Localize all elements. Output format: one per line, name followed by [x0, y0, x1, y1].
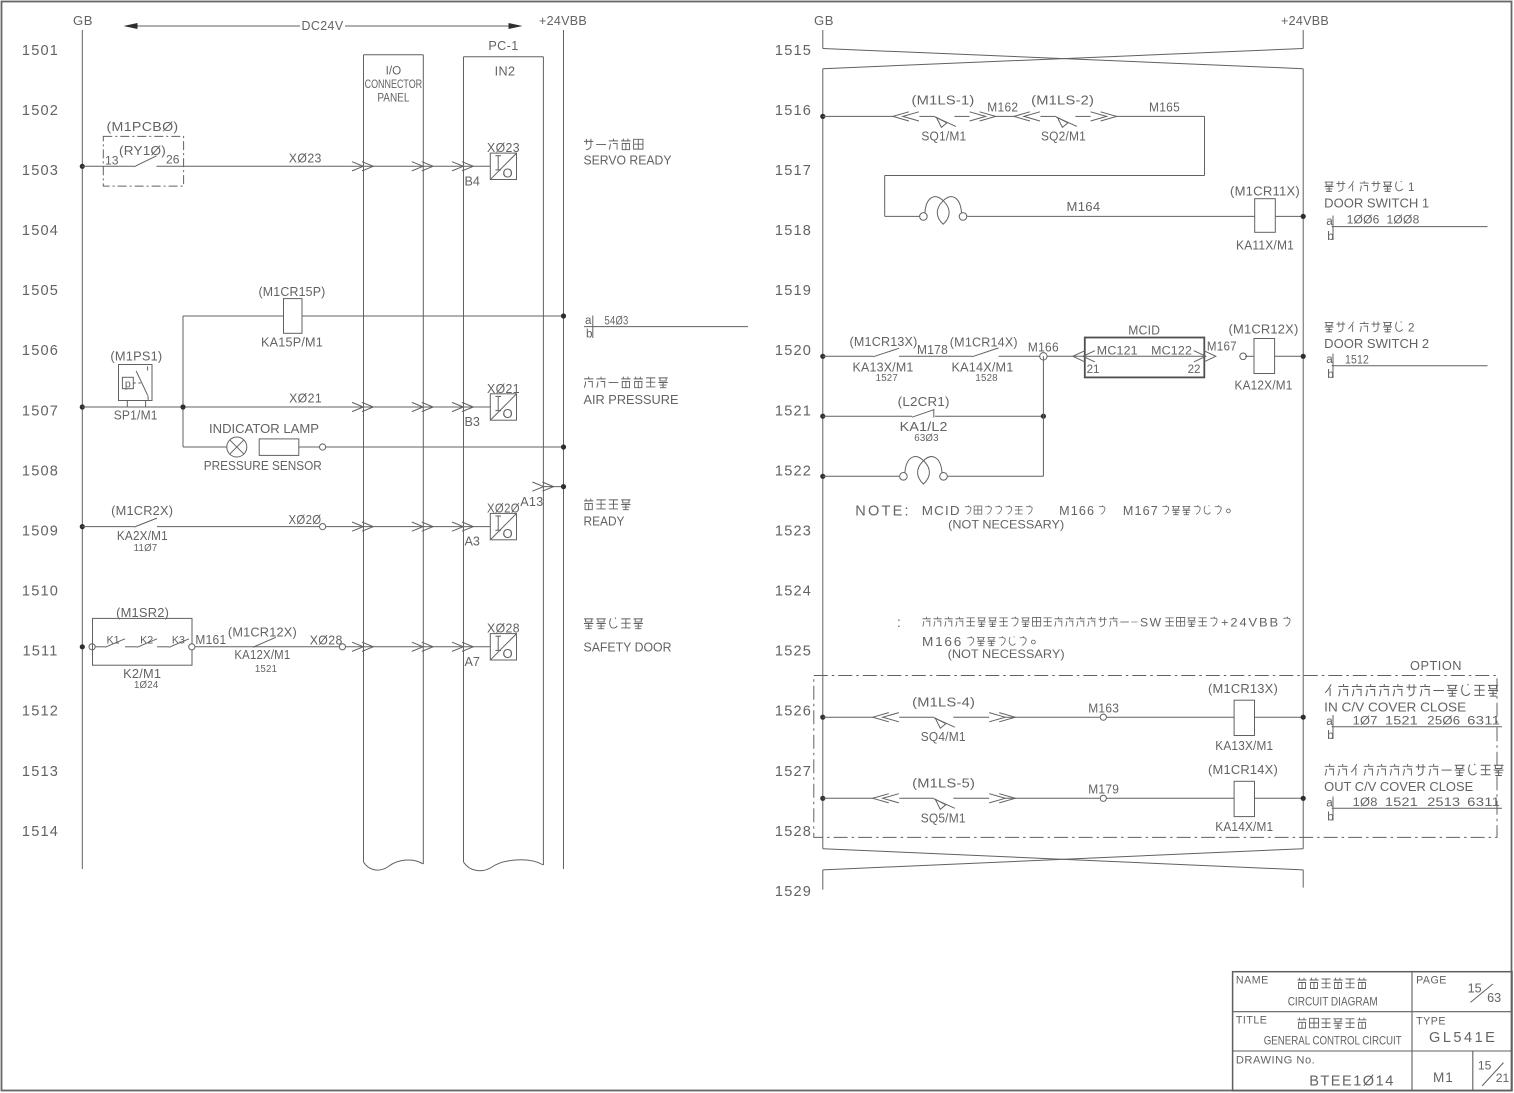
- node +24VBB junction lamp rung: [561, 444, 566, 449]
- svg-text:SQ2/M1: SQ2/M1: [1041, 130, 1086, 144]
- svg-text:1529: 1529: [775, 884, 812, 900]
- svg-text:SW: SW: [1140, 616, 1163, 630]
- svg-text:1516: 1516: [775, 103, 812, 119]
- safety relay unit M1SR2 box: [93, 606, 193, 691]
- svg-text:(NOT NECESSARY): (NOT NECESSARY): [948, 647, 1065, 661]
- annotation door switch 1 (JP): [1325, 182, 1334, 191]
- I/O module X&#216;23: [490, 153, 516, 179]
- node GB junction rung 1526: [820, 715, 825, 720]
- wire rung 1526 mid segment: [1005, 716, 1099, 718]
- svg-text:M178: M178: [917, 343, 948, 357]
- svg-text:SAFETY DOOR: SAFETY DOOR: [584, 641, 672, 655]
- node junction M166 drop 1521: [1041, 414, 1046, 419]
- limit switch SQ4 (M1LS-4): [873, 696, 1015, 745]
- svg-text:1521: 1521: [775, 403, 812, 419]
- wire M164 left segment: [885, 215, 920, 217]
- note conveyor text line: [897, 615, 1290, 630]
- svg-text:15: 15: [1468, 982, 1482, 996]
- svg-text:O: O: [503, 646, 513, 661]
- node +24VBB junction 1526: [1301, 715, 1306, 720]
- left GB bus rail: [81, 30, 83, 869]
- wire rung 1511 mid segment: [195, 646, 340, 648]
- svg-text:GENERAL CONTROL CIRCUIT: GENERAL CONTROL CIRCUIT: [1264, 1033, 1402, 1047]
- relay coil KA12X (M1CR12X): [1229, 322, 1299, 392]
- svg-text:(M1CR14X): (M1CR14X): [1208, 763, 1278, 777]
- MCID unit box: [1073, 323, 1216, 377]
- svg-text:1515: 1515: [775, 43, 812, 59]
- connector chevron A13: [532, 482, 543, 491]
- svg-text:OUT C/V COVER CLOSE: OUT C/V COVER CLOSE: [1324, 780, 1473, 794]
- wire coil KA12X to +24VBB: [1275, 355, 1304, 357]
- svg-text:1514: 1514: [22, 824, 59, 840]
- svg-text:1525: 1525: [775, 644, 812, 660]
- svg-text:DRAWING No.: DRAWING No.: [1236, 1055, 1315, 1067]
- svg-text:(M1LS-5): (M1LS-5): [912, 777, 975, 791]
- svg-text:SP1/M1: SP1/M1: [114, 409, 158, 423]
- svg-text:1501: 1501: [22, 43, 59, 59]
- svg-text:PC-1: PC-1: [488, 39, 518, 53]
- branch wire vertical 1507 to coil/lamp: [182, 316, 184, 447]
- svg-text:(M1CR2X): (M1CR2X): [111, 504, 173, 518]
- svg-text:XØ21: XØ21: [487, 382, 520, 396]
- svg-text:(L2CR1): (L2CR1): [898, 395, 950, 409]
- svg-text:SERVO READY: SERVO READY: [584, 154, 673, 168]
- I/O module X&#216;21: [490, 394, 516, 420]
- svg-text:+24VBB: +24VBB: [1221, 616, 1280, 630]
- svg-text:+24VBB: +24VBB: [539, 13, 587, 28]
- svg-text:25Ø6: 25Ø6: [1427, 714, 1460, 727]
- svg-text:1505: 1505: [22, 283, 59, 299]
- svg-text:1Ø8: 1Ø8: [1353, 796, 1378, 809]
- svg-text:1502: 1502: [22, 103, 59, 119]
- annotation air pressure (JP): [584, 377, 593, 388]
- svg-text:1512: 1512: [1345, 354, 1369, 367]
- svg-text:B4: B4: [465, 174, 480, 188]
- wire M165 segment and drop: [885, 116, 1205, 216]
- I/O module X&#216;28: [490, 634, 516, 660]
- svg-text:PRESSURE SENSOR: PRESSURE SENSOR: [204, 459, 322, 473]
- svg-text:GB: GB: [73, 13, 93, 28]
- terminal circle M1SR2 left: [89, 644, 95, 650]
- svg-text:26: 26: [166, 153, 180, 167]
- wire rung 1521 seg1: [823, 415, 912, 417]
- node +24VBB junction 1527: [1301, 796, 1306, 801]
- node GB junction rung 1527: [820, 796, 825, 801]
- svg-text:1523: 1523: [775, 523, 812, 539]
- svg-text:1520: 1520: [775, 343, 812, 359]
- svg-text:2: 2: [1408, 322, 1414, 335]
- wire rung 1522 seg2: [948, 475, 1044, 477]
- right +24VBB bus rail with continuation break: [1302, 30, 1304, 888]
- OPTION dash-dot enclosure: [814, 676, 1497, 838]
- wire lamp rung right segment: [326, 446, 564, 448]
- svg-text:K2/M1: K2/M1: [123, 667, 161, 681]
- svg-text:PANEL: PANEL: [377, 92, 409, 105]
- relay contact RY10 in M1PCB0 (dashed enclosure): [103, 120, 183, 186]
- pressure switch SP1 (M1PS1): [110, 350, 162, 423]
- wire M167 to coil: [1245, 355, 1254, 357]
- annotation out conveyor cover (JP): [1325, 764, 1335, 776]
- svg-text:M167: M167: [1207, 340, 1237, 354]
- node +24VBB junction M164: [1301, 214, 1306, 219]
- svg-text:MCID: MCID: [1128, 323, 1160, 337]
- connector chevrons rung 1507: [352, 402, 473, 411]
- wire rung 1527 left segment: [823, 797, 873, 799]
- node GB junction rung 1507: [80, 404, 85, 409]
- svg-text:M163: M163: [1088, 701, 1119, 715]
- svg-text:1527: 1527: [876, 373, 898, 384]
- wire rung 1527 right segment: [1106, 797, 1234, 799]
- annotation servo ready (JP): [584, 139, 593, 150]
- svg-text:1521: 1521: [1385, 796, 1418, 809]
- svg-text:TITLE: TITLE: [1236, 1015, 1268, 1027]
- svg-text:1511: 1511: [22, 644, 58, 660]
- wire lamp rung left segment: [183, 446, 227, 448]
- svg-text:1526: 1526: [775, 704, 812, 720]
- svg-text:MC122: MC122: [1151, 343, 1192, 357]
- PC-1 IN2 card column: [464, 39, 544, 871]
- node GB junction rung 1503: [80, 164, 85, 169]
- svg-text:M179: M179: [1088, 782, 1119, 796]
- wire coil rung right segment: [302, 315, 564, 317]
- svg-text:PAGE: PAGE: [1416, 975, 1447, 987]
- limit switch SQ2 (M1LS-2): [1014, 94, 1117, 144]
- wire rung 1507 mid segment: [127, 406, 490, 408]
- svg-text:MCID: MCID: [922, 503, 961, 518]
- svg-text:AIR PRESSURE: AIR PRESSURE: [584, 393, 679, 407]
- svg-text:(M1PCBØ): (M1PCBØ): [107, 120, 179, 134]
- svg-text:KA12X/M1: KA12X/M1: [1235, 378, 1293, 392]
- plug connector symbol rung 1522: [900, 473, 908, 481]
- svg-text:21: 21: [1496, 1071, 1510, 1085]
- I/O module X&#216;2&#216;: [490, 513, 516, 539]
- annotation ready (JP): [584, 499, 593, 510]
- svg-text:11Ø7: 11Ø7: [134, 543, 158, 554]
- terminal circle rung 1509: [320, 524, 326, 530]
- cross-reference a/b 5403: [584, 314, 748, 341]
- svg-text:63Ø3: 63Ø3: [914, 433, 939, 444]
- svg-text:1527: 1527: [775, 764, 812, 780]
- svg-text:15: 15: [1478, 1059, 1492, 1073]
- svg-text:1528: 1528: [975, 373, 997, 384]
- svg-text:(M1PS1): (M1PS1): [110, 350, 162, 364]
- indicator lamp symbol: [209, 422, 319, 457]
- wire rung 1521 seg2: [935, 415, 1043, 417]
- wire rung 1526 left segment: [823, 716, 873, 718]
- svg-text:M161: M161: [195, 633, 226, 647]
- svg-text:OPTION: OPTION: [1410, 659, 1462, 673]
- relay coil KA14X (M1CR14X): [1208, 763, 1278, 834]
- svg-text:a: a: [1326, 796, 1333, 809]
- svg-text:(M1LS-2): (M1LS-2): [1031, 94, 1094, 108]
- svg-text:CONNECTOR: CONNECTOR: [365, 78, 423, 91]
- relay coil KA13X (M1CR13X): [1208, 682, 1278, 753]
- svg-text:CIRCUIT DIAGRAM: CIRCUIT DIAGRAM: [1288, 995, 1378, 1009]
- svg-text:21: 21: [1087, 363, 1100, 376]
- svg-text:(NOT NECESSARY): (NOT NECESSARY): [948, 518, 1064, 532]
- relay contact KA13X (M1CR13X): [850, 335, 918, 384]
- svg-text:b: b: [586, 328, 592, 341]
- svg-text:(M1CR11X): (M1CR11X): [1230, 185, 1300, 199]
- svg-text:M166: M166: [1059, 503, 1095, 518]
- node +24VBB junction A13: [561, 484, 566, 489]
- svg-text:MC121: MC121: [1097, 343, 1138, 357]
- cross-reference a/b 108 1521 2513 6311: [1326, 796, 1502, 824]
- bottom continuation crossover: [823, 849, 1303, 870]
- svg-text:KA12X/M1: KA12X/M1: [234, 648, 290, 662]
- svg-text:XØ28: XØ28: [487, 622, 520, 636]
- wire rung 1509 right segment: [326, 526, 490, 528]
- svg-text:K1: K1: [106, 635, 119, 647]
- svg-text:1518: 1518: [775, 223, 812, 239]
- svg-text:(M1LS-1): (M1LS-1): [912, 94, 975, 108]
- svg-text:KA13X/M1: KA13X/M1: [1215, 739, 1273, 753]
- svg-text:A13: A13: [520, 495, 543, 509]
- cross-reference a/b 1006 1008: [1326, 214, 1487, 243]
- wire rung 1527 mid segment: [1005, 797, 1099, 799]
- wire rung 1509 left segment: [82, 526, 134, 528]
- svg-text:1521: 1521: [1385, 714, 1418, 727]
- svg-text:O: O: [503, 166, 513, 181]
- relay contact KA14X (M1CR14X): [950, 335, 1018, 384]
- svg-text:KA2X/M1: KA2X/M1: [117, 529, 168, 543]
- vertical tie M166 to 1522: [1042, 356, 1044, 476]
- svg-text:M162: M162: [987, 100, 1018, 114]
- svg-text:(M1CR12X): (M1CR12X): [1229, 322, 1299, 336]
- svg-text:XØ21: XØ21: [289, 392, 322, 406]
- svg-text:1Ø7: 1Ø7: [1353, 714, 1378, 727]
- svg-text:SQ1/M1: SQ1/M1: [921, 130, 966, 144]
- connector chevrons rung 1509: [352, 522, 473, 531]
- svg-text:6311: 6311: [1467, 714, 1500, 727]
- title block DRAWING cell: [1236, 1055, 1510, 1090]
- svg-text::: :: [897, 615, 901, 630]
- wire coil KA14X to +24VBB: [1255, 797, 1304, 799]
- svg-text:M165: M165: [1149, 100, 1180, 114]
- wire rung 1520 seg3: [999, 355, 1041, 357]
- svg-text:1521: 1521: [255, 664, 277, 675]
- node GB junction rung 1511: [80, 644, 85, 649]
- title block PAGE cell: [1416, 975, 1501, 1006]
- wire rung 1509 mid segment: [157, 526, 320, 528]
- right rung line numbers 1515-1529: [775, 43, 812, 900]
- note M166 short line: [922, 634, 1035, 649]
- cross-reference a/b 107 1521 2506 6311: [1326, 714, 1502, 742]
- svg-text:KA11X/M1: KA11X/M1: [1236, 239, 1294, 253]
- node GB junction rung 1522: [820, 474, 825, 479]
- svg-text:B3: B3: [465, 415, 480, 429]
- terminal circle M166: [1040, 353, 1047, 360]
- svg-text:1ØØ6: 1ØØ6: [1347, 214, 1380, 227]
- terminal circle rung 1511: [339, 644, 345, 650]
- svg-text:(M1SR2): (M1SR2): [116, 606, 169, 620]
- svg-text:INDICATOR LAMP: INDICATOR LAMP: [209, 422, 319, 436]
- relay contact NC KA1/L2 (L2CR1): [898, 395, 950, 444]
- svg-text:(M1CR15P): (M1CR15P): [259, 285, 326, 299]
- svg-text:1513: 1513: [22, 764, 59, 780]
- terminal circle M1SR2 right: [189, 644, 195, 650]
- svg-text:READY: READY: [584, 515, 626, 529]
- svg-text:1508: 1508: [22, 463, 59, 479]
- annotation door switch 2 (JP): [1325, 323, 1334, 332]
- relay coil KA15P (M1CR15P): [259, 285, 326, 350]
- title block TYPE cell: [1416, 1016, 1497, 1047]
- wire rung 1516 left segment: [823, 115, 893, 117]
- svg-text:GL541E: GL541E: [1429, 1030, 1497, 1046]
- svg-text:a: a: [1326, 353, 1333, 366]
- wire rung 1522 seg1: [823, 475, 899, 477]
- title block NAME cell: [1236, 975, 1378, 1009]
- svg-text:A7: A7: [465, 655, 480, 669]
- node +24VBB junction 1520: [1301, 354, 1306, 359]
- svg-text:1524: 1524: [775, 584, 812, 600]
- svg-text:DC24V: DC24V: [302, 19, 344, 33]
- svg-text:1528: 1528: [775, 824, 812, 840]
- node GB junction rung 1509: [80, 524, 85, 529]
- svg-text:1519: 1519: [775, 283, 812, 299]
- svg-text:(RY1Ø): (RY1Ø): [119, 144, 166, 158]
- svg-text:a: a: [1326, 715, 1333, 728]
- svg-text:1507: 1507: [22, 403, 59, 419]
- wire rung 1507 left segment: [82, 406, 127, 408]
- annotation safety door (JP): [584, 619, 593, 629]
- node +24VBB junction coil rung: [561, 313, 566, 318]
- relay coil KA11X (M1CR11X): [1230, 185, 1300, 253]
- wire M166 to MCID: [1047, 355, 1084, 357]
- svg-text:A3: A3: [465, 535, 480, 549]
- title block table: [1233, 972, 1512, 1091]
- svg-text:(M1CR13X): (M1CR13X): [850, 335, 918, 349]
- svg-text:O: O: [503, 526, 513, 541]
- svg-text:1503: 1503: [22, 163, 59, 179]
- svg-text:(M1LS-4): (M1LS-4): [912, 696, 975, 710]
- node GB junction rung 1520: [820, 354, 825, 359]
- plug connector symbol M164: [920, 213, 928, 221]
- terminal circle M179: [1100, 795, 1106, 801]
- svg-text:(M1CR14X): (M1CR14X): [950, 335, 1018, 349]
- note MCID text line: [855, 503, 1230, 520]
- svg-text:a: a: [1326, 215, 1333, 228]
- svg-text:1510: 1510: [22, 584, 59, 600]
- wire rung 1503 X023 segment: [157, 165, 491, 167]
- svg-text:p: p: [125, 379, 131, 391]
- limit switch SQ5 (M1LS-5): [873, 777, 1015, 826]
- svg-text:M164: M164: [1067, 200, 1101, 214]
- wire lamp to terminal: [299, 446, 320, 448]
- svg-text:KA1/L2: KA1/L2: [900, 420, 948, 434]
- title block TITLE cell: [1236, 1015, 1402, 1048]
- svg-text:XØ28: XØ28: [310, 634, 343, 648]
- svg-text:a: a: [585, 314, 592, 327]
- wire A13 to +24VBB: [543, 486, 563, 488]
- terminal circle M163: [1100, 714, 1106, 720]
- svg-text:1: 1: [1408, 181, 1414, 194]
- svg-text:TYPE: TYPE: [1416, 1016, 1446, 1028]
- svg-text:1Ø24: 1Ø24: [134, 680, 159, 691]
- svg-text:BTEE1Ø14: BTEE1Ø14: [1309, 1074, 1395, 1090]
- svg-text:2513: 2513: [1427, 796, 1460, 809]
- svg-text:(M1CR12X): (M1CR12X): [228, 626, 297, 640]
- svg-text:1506: 1506: [22, 343, 59, 359]
- node branch junction 1507: [180, 404, 185, 409]
- svg-text:KA15P/M1: KA15P/M1: [261, 336, 323, 350]
- svg-text:O: O: [503, 406, 513, 421]
- left +24VBB bus rail: [563, 30, 565, 869]
- svg-text:1517: 1517: [775, 163, 812, 179]
- svg-text:NOTE:: NOTE:: [855, 504, 910, 520]
- connector chevrons rung 1511: [352, 642, 473, 651]
- pressure sensor box: [204, 439, 322, 473]
- svg-text:DOOR SWITCH 1: DOOR SWITCH 1: [1324, 197, 1429, 211]
- top continuation crossover: [823, 49, 1303, 69]
- terminal circle lamp rung: [320, 444, 326, 450]
- svg-text:54Ø3: 54Ø3: [605, 315, 629, 328]
- svg-text:1512: 1512: [22, 704, 59, 720]
- right GB bus rail with continuation break: [822, 30, 824, 890]
- svg-text:1522: 1522: [775, 463, 812, 479]
- wire coil KA13X to +24VBB: [1255, 716, 1304, 718]
- wire rung 1520 seg2: [899, 355, 972, 357]
- svg-text:I/O: I/O: [386, 65, 402, 78]
- svg-text:IN2: IN2: [495, 65, 516, 79]
- wire rung 1503 left segment: [82, 165, 134, 167]
- connector chevrons rung 1503: [352, 162, 473, 171]
- left rung line numbers 1501-1514: [22, 43, 59, 840]
- svg-text:63: 63: [1487, 991, 1501, 1005]
- svg-text:IN C/V COVER CLOSE: IN C/V COVER CLOSE: [1324, 700, 1466, 714]
- wire rung 1520 seg1: [823, 355, 873, 357]
- svg-text:NAME: NAME: [1236, 975, 1269, 987]
- wire coil rung left segment: [183, 315, 284, 317]
- wire coil KA11X to +24VBB: [1275, 215, 1303, 217]
- svg-text:6311: 6311: [1467, 796, 1500, 809]
- cross-reference a/b 1512: [1326, 353, 1487, 381]
- svg-text:SQ4/M1: SQ4/M1: [921, 730, 966, 744]
- svg-text:1ØØ8: 1ØØ8: [1387, 214, 1420, 227]
- svg-text:+24VBB: +24VBB: [1281, 13, 1329, 28]
- svg-text:XØ2Ø: XØ2Ø: [289, 513, 322, 527]
- wire M162 segment: [995, 115, 1014, 117]
- DC24V range label with arrows: [124, 19, 523, 33]
- svg-text:XØ23: XØ23: [487, 141, 520, 155]
- node GB junction rung 1516: [820, 114, 825, 119]
- svg-text:13: 13: [105, 154, 119, 168]
- relay contact KA12X (M1CR12X): [228, 626, 297, 676]
- svg-text:KA14X/M1: KA14X/M1: [1215, 820, 1273, 834]
- svg-text:22: 22: [1188, 363, 1201, 376]
- svg-text:XØ2Ø: XØ2Ø: [487, 501, 520, 515]
- limit switch SQ1 (M1LS-1): [893, 94, 996, 144]
- svg-text:1509: 1509: [22, 523, 59, 539]
- svg-text:SQ5/M1: SQ5/M1: [921, 811, 966, 825]
- I/O connector panel column: [364, 55, 424, 870]
- wire M164 right segment: [967, 215, 1254, 217]
- svg-text:GB: GB: [814, 13, 834, 28]
- svg-text:DOOR SWITCH 2: DOOR SWITCH 2: [1324, 337, 1429, 351]
- svg-text:1504: 1504: [22, 223, 59, 239]
- annotation in conveyor cover (JP): [1325, 684, 1331, 696]
- svg-text:XØ23: XØ23: [289, 152, 322, 166]
- node GB junction rung 1521: [820, 414, 825, 419]
- svg-text:M167: M167: [1123, 503, 1159, 518]
- wire rung 1511 right segment: [345, 646, 490, 648]
- svg-text:M1: M1: [1433, 1070, 1454, 1085]
- terminal circle M167: [1240, 353, 1247, 360]
- wire rung 1526 right segment: [1106, 716, 1234, 718]
- relay contact KA2X (M1CR2X): [111, 504, 173, 554]
- svg-text:(M1CR13X): (M1CR13X): [1208, 682, 1278, 696]
